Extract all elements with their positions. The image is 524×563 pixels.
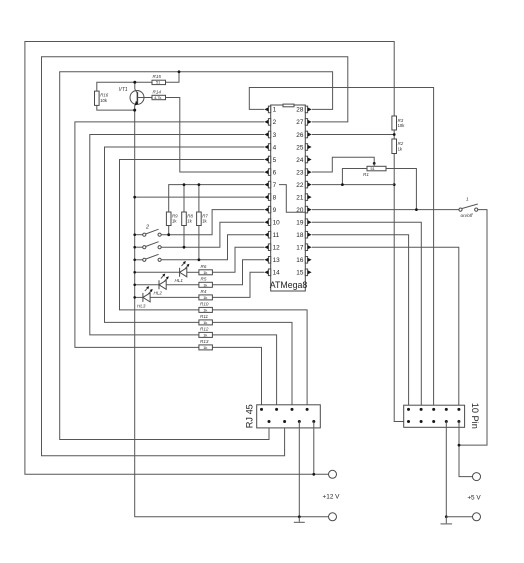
wire base to R14 xyxy=(137,97,152,99)
wire pin22 to R2 line xyxy=(312,184,394,186)
wire R16 top to collector node and R15 left xyxy=(97,82,152,91)
svg-text:HL3: HL3 xyxy=(137,303,146,308)
wire R8 top stub xyxy=(183,185,185,212)
pin 16 xyxy=(296,257,311,265)
switch on/off xyxy=(459,197,478,219)
ground symbol right xyxy=(441,517,453,524)
wire pin20 to on/off switch xyxy=(312,209,459,211)
wire ground bus: emitter node down, bottom right to GND terminal xyxy=(135,105,329,516)
svg-text:51: 51 xyxy=(156,81,160,85)
pin 21 xyxy=(296,194,311,202)
trimmer R1 xyxy=(363,163,386,176)
wire switch S2 to pin10 xyxy=(161,222,264,247)
wire RJ45 b4 down to +12V line xyxy=(313,422,315,475)
pin 17 xyxy=(296,244,311,252)
svg-text:R5: R5 xyxy=(201,277,207,282)
node +5V junction xyxy=(458,444,461,447)
resistor R15 xyxy=(152,74,166,84)
wire 10-pin b4 down to right ground xyxy=(445,422,447,517)
svg-text:22: 22 xyxy=(296,182,304,189)
svg-text:R10: R10 xyxy=(200,302,209,307)
wire pin3 to R12 left xyxy=(90,135,264,335)
switch S3 row xyxy=(133,254,161,261)
svg-text:1k: 1k xyxy=(203,345,207,350)
terminal ground right xyxy=(473,513,481,521)
svg-text:11: 11 xyxy=(273,232,280,239)
resistor R12 xyxy=(199,327,213,338)
wire +12V net: outer loop from +12V terminal up-left-top-right down to R3 top xyxy=(25,42,394,475)
node collector/R16/R15 xyxy=(133,81,136,84)
svg-text:1k: 1k xyxy=(203,270,207,275)
led HL2 xyxy=(133,274,168,296)
svg-text:1k: 1k xyxy=(203,320,207,325)
pin 1 xyxy=(264,106,276,114)
pin 19 xyxy=(296,219,311,227)
node R1 right on pin20 wire xyxy=(415,208,418,211)
pin 26 xyxy=(296,131,311,139)
transistor VT1 xyxy=(119,87,145,106)
pin 12 xyxy=(264,244,280,252)
wire pin23 to R1 wiper xyxy=(312,157,374,172)
node pin8 ground xyxy=(133,196,136,199)
pin 10 xyxy=(264,219,280,227)
svg-text:+5 V: +5 V xyxy=(467,495,481,502)
svg-text:R11: R11 xyxy=(200,314,209,319)
node R8 bottom on S2 wire xyxy=(183,246,186,249)
svg-text:21: 21 xyxy=(296,194,304,201)
resistor R7 xyxy=(197,212,209,226)
pin 9 xyxy=(264,206,276,214)
svg-text:1k: 1k xyxy=(203,332,207,337)
pin 4 xyxy=(264,144,276,152)
svg-text:R12: R12 xyxy=(200,327,209,332)
svg-text:1k: 1k xyxy=(203,307,207,312)
svg-text:20: 20 xyxy=(296,207,304,214)
wire pin8 to ground bus xyxy=(135,196,265,198)
resistor R14 xyxy=(152,89,166,99)
pin 23 xyxy=(296,169,311,177)
wire R1 right down to pin20 wire xyxy=(386,169,416,210)
wire switch S3 to pin11 xyxy=(161,235,264,260)
connector 10 Pin X2 xyxy=(404,403,480,429)
svg-text:23: 23 xyxy=(296,169,304,176)
wire R9 bottom to switch row1 xyxy=(168,226,170,235)
node right ground xyxy=(445,515,448,518)
resistor R3 xyxy=(392,116,405,130)
svg-text:10k: 10k xyxy=(398,123,406,128)
wire 10-pin b5 down to +5V terminal xyxy=(459,422,473,477)
svg-text:on/off: on/off xyxy=(461,213,474,219)
resistor R2 xyxy=(392,139,404,154)
svg-text:10 Pin: 10 Pin xyxy=(470,403,480,429)
resistor R9 xyxy=(166,212,178,226)
wire switch S1 to pin9 xyxy=(161,210,264,235)
svg-text:51: 51 xyxy=(371,167,375,171)
resistor R4 xyxy=(199,289,213,300)
svg-text:HL2: HL2 xyxy=(154,291,163,296)
wire pin17 down to 10-pin t5 xyxy=(312,247,459,409)
svg-text:26: 26 xyxy=(296,132,304,139)
svg-text:16: 16 xyxy=(296,257,304,264)
svg-text:1: 1 xyxy=(273,107,277,114)
wire pin28 net: pin28 up over top, down left side, bottom to RJ45 b1 xyxy=(60,72,333,440)
node R15 on pin28 line xyxy=(178,70,181,73)
wire pin7 to R9 R8 R7 tops xyxy=(169,185,265,212)
node R9 bottom on S1 wire xyxy=(167,233,170,236)
node emitter/R16 ground xyxy=(133,109,136,112)
wire pin1 net: loop over IC top to 10-pin t3 xyxy=(249,88,433,410)
resistor R11 xyxy=(199,314,213,325)
svg-text:3: 3 xyxy=(273,132,277,139)
resistor R6 xyxy=(199,264,213,275)
svg-text:+12 V: +12 V xyxy=(323,494,341,501)
svg-text:10: 10 xyxy=(273,220,281,227)
wire RJ45 b3 down to ground bus xyxy=(298,422,300,517)
svg-text:27: 27 xyxy=(296,119,304,126)
resistor R8 xyxy=(182,212,194,226)
pin 28 xyxy=(296,106,311,114)
pin 11 xyxy=(264,231,279,239)
wire R10 right to RJ45 t4 xyxy=(212,310,307,410)
terminal +5V xyxy=(473,473,481,481)
wire on/off right down to +5V node xyxy=(459,210,487,446)
svg-text:4.7k: 4.7k xyxy=(154,96,161,100)
pin 25 xyxy=(296,144,311,152)
led HL3 xyxy=(133,286,152,308)
svg-text:28: 28 xyxy=(296,107,304,114)
wire pin4 to R11 left xyxy=(105,147,265,322)
svg-text:R14: R14 xyxy=(153,89,162,94)
node pin26 R3 R2 xyxy=(393,133,396,136)
wire R5 to pin13 xyxy=(212,260,264,285)
svg-text:R4: R4 xyxy=(201,289,207,294)
switch S1 row xyxy=(133,229,161,236)
svg-text:1k: 1k xyxy=(203,295,207,300)
svg-text:10k: 10k xyxy=(100,98,108,103)
svg-text:2: 2 xyxy=(273,119,277,126)
wire R8 bottom to switch row2 xyxy=(183,226,185,248)
svg-text:R16: R16 xyxy=(100,93,109,98)
terminal ground left xyxy=(329,513,337,521)
svg-text:1k: 1k xyxy=(203,282,207,287)
svg-text:ATMega8: ATMega8 xyxy=(270,280,308,291)
svg-text:2: 2 xyxy=(145,225,149,231)
pin 8 xyxy=(264,194,276,202)
connector RJ45 X1 xyxy=(245,404,321,428)
wire HL2 to R5 xyxy=(166,284,199,286)
svg-text:1: 1 xyxy=(466,197,469,203)
node R7 bottom on S3 wire xyxy=(198,258,201,261)
svg-text:24: 24 xyxy=(296,157,304,164)
wire R1 left to pin22 wire xyxy=(342,169,367,185)
svg-text:7: 7 xyxy=(273,182,277,189)
svg-text:19: 19 xyxy=(296,220,304,227)
pin 7 xyxy=(264,181,276,189)
svg-text:15: 15 xyxy=(296,270,304,277)
svg-text:6: 6 xyxy=(273,169,277,176)
wire pin18 down to 10-pin t1 xyxy=(312,235,409,410)
wire R7 top stub xyxy=(198,185,200,212)
svg-text:14: 14 xyxy=(273,270,281,277)
svg-text:R13: R13 xyxy=(200,339,209,344)
svg-text:25: 25 xyxy=(296,144,304,151)
pin 6 xyxy=(264,169,276,177)
wire R16 bottom to ground node xyxy=(97,105,135,110)
led HL1 xyxy=(133,261,189,283)
svg-text:R15: R15 xyxy=(153,74,162,79)
wire R7 bottom to switch row3 xyxy=(198,226,200,260)
wire internal pin7 to pin20 xyxy=(279,185,305,213)
terminal +12V xyxy=(329,470,337,478)
svg-text:VT1: VT1 xyxy=(119,87,128,93)
wire pin26 to R3/R2 node xyxy=(312,134,394,136)
wire collector up to node xyxy=(134,82,136,89)
node R1 left on pin22 wire xyxy=(341,183,344,186)
ground symbol left xyxy=(294,517,305,523)
pin 18 xyxy=(296,231,311,239)
svg-text:8: 8 xyxy=(273,194,277,201)
pin 27 xyxy=(296,119,311,127)
pin 24 xyxy=(296,156,311,164)
pin 20 xyxy=(296,206,311,214)
svg-text:17: 17 xyxy=(296,245,304,252)
node R7 top xyxy=(198,183,201,186)
svg-text:RJ 45: RJ 45 xyxy=(245,404,255,428)
wire pin5 to R10 left xyxy=(120,160,265,310)
wire pin2 to R13 left xyxy=(75,122,264,348)
switch S2 row xyxy=(133,242,161,249)
svg-text:5: 5 xyxy=(273,157,277,164)
node pin22 on R2 line xyxy=(393,183,396,186)
pin 3 xyxy=(264,131,276,139)
pin 2 xyxy=(264,119,276,127)
IC ATMega8 U1 xyxy=(270,104,308,291)
wire pin27 net: pin27 up over top, down left side, bottom to RJ45 b2 xyxy=(42,57,348,456)
svg-text:9: 9 xyxy=(273,207,277,214)
pin 13 xyxy=(264,257,280,265)
resistor R5 xyxy=(199,277,213,288)
wire R14 right down to pin6 xyxy=(166,98,265,173)
svg-text:4: 4 xyxy=(273,144,277,151)
svg-text:12: 12 xyxy=(273,245,281,252)
node R1 wiper xyxy=(373,162,376,165)
pin 14 xyxy=(264,269,280,277)
wire HL3 to R4 xyxy=(150,296,199,298)
wire pin19 down to 10-pin t2 xyxy=(312,222,422,409)
resistor R16 xyxy=(95,91,109,105)
node R8 top xyxy=(183,183,186,186)
wire R4 to pin14 xyxy=(212,272,264,297)
svg-text:R1: R1 xyxy=(363,172,369,177)
wire R6 to pin12 xyxy=(212,247,264,272)
wire R11 right to RJ45 t3 xyxy=(212,322,292,409)
wire R13 right to RJ45 t1 xyxy=(212,347,261,409)
wire R15 right up to pin28 line xyxy=(166,72,180,83)
svg-text:HL1: HL1 xyxy=(175,278,184,283)
pin 22 xyxy=(296,181,311,189)
node b3 ground xyxy=(298,515,301,518)
pin 15 xyxy=(296,269,311,277)
resistor R10 xyxy=(199,302,213,313)
wire HL1 to R6 xyxy=(187,271,199,273)
resistor R13 xyxy=(199,339,213,350)
wire right ground to terminal xyxy=(446,516,472,518)
wire R12 right to RJ45 t2 xyxy=(212,335,276,410)
wire R2 bottom down to 10-pin b1 xyxy=(394,154,408,422)
node b4 +12V xyxy=(312,473,315,476)
svg-text:R6: R6 xyxy=(201,264,207,269)
svg-text:13: 13 xyxy=(273,257,281,264)
wire R3 bottom to R2 top xyxy=(393,130,395,139)
pin 5 xyxy=(264,156,276,164)
svg-text:18: 18 xyxy=(296,232,304,239)
